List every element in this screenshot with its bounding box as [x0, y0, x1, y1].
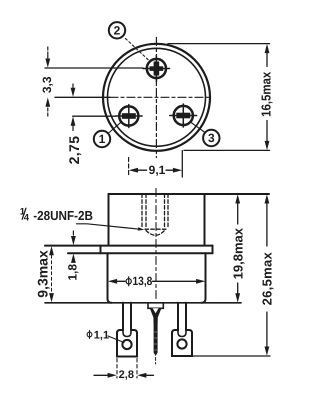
dimension 2,8 right extension line: [136, 359, 138, 379]
svg-text:13,8: 13,8: [132, 274, 152, 288]
pin 2 (top pin): [143, 56, 170, 83]
svg-text:3,3: 3,3: [40, 76, 54, 93]
dimension 26,5max: [260, 194, 275, 356]
horizontal center line (top view): [55, 96, 211, 98]
svg-text:2: 2: [114, 24, 121, 38]
dimension 13,8: [108, 274, 205, 288]
svg-text:9,3max: 9,3max: [34, 250, 50, 298]
dimension 3,3 extension line at pin2 level: [45, 67, 143, 69]
dimension 2,8 left extension line: [116, 359, 118, 379]
svg-text:2,75: 2,75: [66, 136, 82, 165]
dimension 9,1 right extension line: [181, 151, 183, 178]
label diameter 1,1: [87, 329, 124, 342]
vertical center line (top view): [155, 38, 157, 158]
svg-text:1: 1: [99, 132, 106, 146]
dimension 19,8max bottom extension line: [210, 302, 241, 304]
flange: [45, 246, 213, 254]
side view center line: [155, 189, 157, 302]
svg-text:19,8max: 19,8max: [230, 227, 245, 279]
svg-text:3: 3: [208, 131, 215, 145]
dimension 26,5max bottom extension line: [192, 355, 270, 357]
svg-text:1,8: 1,8: [66, 264, 80, 281]
left lead: [117, 303, 137, 357]
dimension 9,1: [129, 163, 182, 177]
center pin (glass seal lead): [148, 304, 163, 365]
right lead: [172, 303, 192, 356]
pin 3 (bottom right pin): [170, 104, 197, 127]
dimension 2,75: [66, 84, 82, 164]
svg-text:4: 4: [24, 213, 30, 224]
svg-text:9,1: 9,1: [149, 163, 166, 177]
label circle 2: [109, 22, 149, 60]
dimension 16,5max top extension line: [168, 43, 270, 45]
label circle 1: [94, 122, 122, 147]
threaded stud hole (hidden, dashed): [142, 194, 168, 235]
base body: [45, 253, 241, 302]
thread label 1/4-28UNF-2B: [20, 207, 145, 231]
svg-text:2,8: 2,8: [119, 369, 134, 381]
pin 1 (bottom left pin): [116, 105, 143, 128]
svg-text:26,5max: 26,5max: [260, 252, 275, 306]
svg-text:16,5max: 16,5max: [259, 71, 274, 117]
dimension 9,3max: [34, 246, 54, 302]
side view can body: [109, 194, 270, 245]
svg-text:-28UNF-2B: -28UNF-2B: [33, 208, 93, 223]
dimension 2,75 extension line at pins 1-3 level: [73, 115, 116, 117]
dimension 9,1 left extension line: [128, 158, 130, 178]
dimension 19,8max: [230, 194, 245, 302]
dimension 3,3: [40, 47, 54, 116]
dimension 16,5max: [259, 44, 274, 150]
inner circle (can top view): [108, 48, 206, 146]
label circle 3: [191, 122, 220, 146]
outer circle (can top view): [103, 44, 210, 151]
dimension 16,5max bottom extension line: [184, 149, 270, 151]
dimension 2,8: [94, 369, 154, 381]
dimension 1,8: [66, 231, 80, 281]
svg-text:1,1: 1,1: [94, 329, 109, 341]
